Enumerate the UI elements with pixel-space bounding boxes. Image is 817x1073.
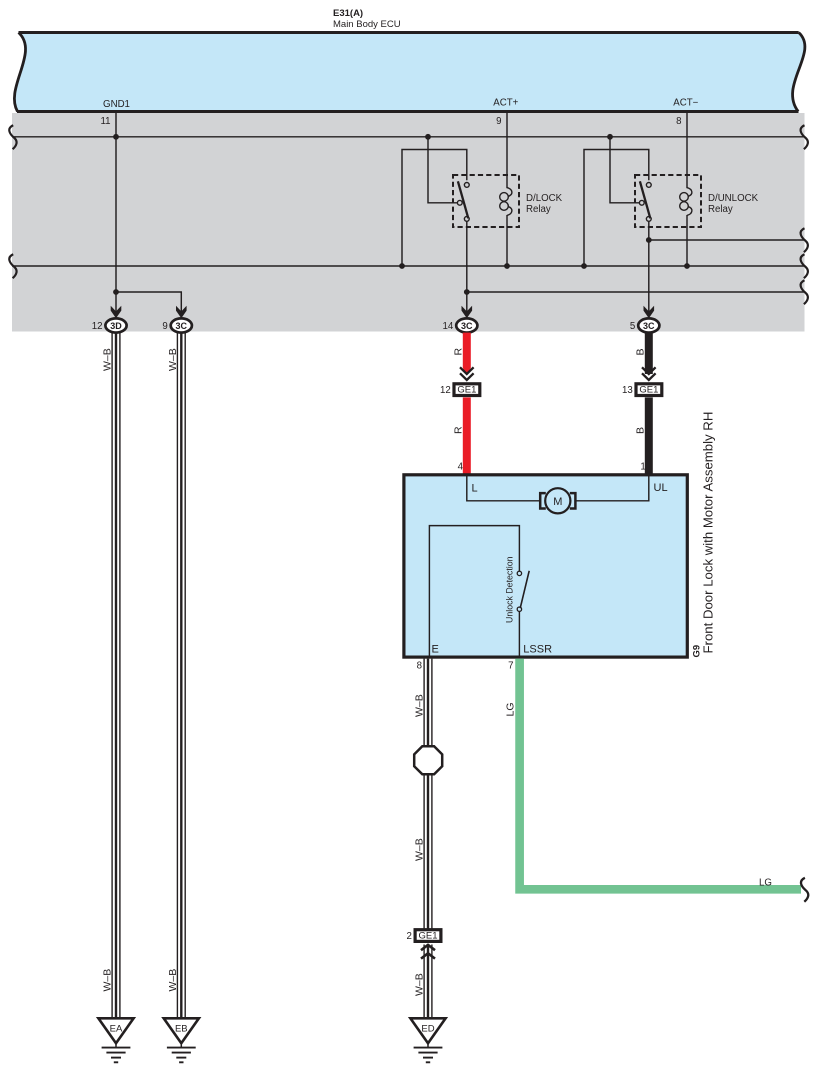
ground EA [98,1018,133,1062]
junction bus2 / D-UNLOCK out [646,237,652,243]
svg-text:M: M [553,496,562,508]
wire unlock detection (internal) [429,526,519,656]
wire relay U-link D/UNLOCK [584,150,649,267]
svg-text:ACT−: ACT− [673,98,698,109]
wire: horizontal bus line 3 (relay common) [12,265,804,267]
svg-text:LSSR: LSSR [523,643,552,655]
arrow out of GE1 pin 2 (double chevron up) [421,945,435,959]
svg-text:W–B: W–B [102,969,114,992]
relay coil D/UNLOCK [680,188,692,266]
wire B (black) from GE1 to G9 pin 1 [645,397,653,473]
relay switch D/UNLOCK [639,181,651,221]
torn wire mark (LG wire end) [801,878,808,902]
svg-text:E: E [432,643,439,655]
relay coil D/LOCK [500,188,512,266]
wire B (black) from connector 3C pin 5 to GE1 pin 13 [645,333,653,374]
arrow into GE1 pin 13 (double chevron) [642,367,656,380]
svg-text:LG: LG [505,702,517,716]
junction GND1 branch [113,289,119,295]
connector 3C pin 9 [162,318,191,332]
wire LG (light green) from G9 pin 7 [520,659,801,890]
component G9 Front Door Lock with Motor Assembly RH (blue box) [404,475,687,657]
svg-text:Unlock Detection: Unlock Detection [505,556,515,623]
svg-text:LG: LG [759,877,772,888]
svg-text:EB: EB [175,1024,188,1035]
svg-text:Relay: Relay [526,204,551,215]
unlock detection switch [517,571,529,612]
svg-text:11: 11 [100,116,110,127]
arrow into connector 3C pin 9 [176,306,187,318]
svg-text:D/UNLOCK: D/UNLOCK [708,193,759,204]
wire W-B from connector 3D pin 12 to ground EA [112,333,120,1019]
svg-text:ACT+: ACT+ [493,98,518,109]
svg-text:Relay: Relay [708,204,733,215]
arrow into GE1 pin 12 (double chevron) [460,367,474,380]
svg-text:EA: EA [110,1024,123,1035]
wire relay feed D/LOCK (from bus 1) [428,137,457,203]
svg-text:GND1: GND1 [103,99,130,110]
svg-text:3D: 3D [110,321,122,331]
wire relay U-link D/LOCK [402,150,467,267]
wire: horizontal bus line 4 (D/LOCK output to other doors) [467,291,804,293]
torn edge mark left, line 3 [9,254,16,278]
svg-text:14: 14 [443,321,454,332]
wire W-B from connector 3C pin 9 to ground EB [177,333,185,1019]
torn edge mark right, line 1 [801,125,808,149]
junction bus1 / D-UNLOCK feed [607,134,613,140]
wire W-B from octagon to GE1 pin 2 [424,774,432,930]
svg-text:D/LOCK: D/LOCK [526,193,563,204]
relay switch D/LOCK [457,181,469,221]
svg-text:W–B: W–B [167,969,179,992]
arrow into connector 3D pin 12 [111,306,122,318]
junction bus3 / D-LOCK coil [504,263,510,269]
body wiring shield (gray band) [12,113,805,332]
torn edge mark right, line 4 [801,280,808,304]
svg-text:2: 2 [407,931,412,942]
svg-text:R: R [452,348,464,356]
svg-text:E31(A): E31(A) [333,8,363,19]
svg-text:L: L [472,483,478,495]
svg-text:GE1: GE1 [639,385,658,396]
svg-text:13: 13 [622,385,633,396]
wire: horizontal bus line 1 [12,136,804,138]
wire D/LOCK switch output down [466,221,468,311]
svg-text:9: 9 [162,321,167,332]
ground ED [410,1018,445,1062]
connector 3C pin 14 [443,318,478,332]
arrow into connector 3C pin 5 [644,306,655,318]
svg-text:W–B: W–B [414,838,426,861]
ground EB [164,1018,199,1062]
octagon junction [414,746,442,774]
svg-text:W–B: W–B [102,348,114,371]
svg-text:Front Door Lock with Motor Ass: Front Door Lock with Motor Assembly RH [701,412,716,654]
connector 3C pin 5 [630,318,659,332]
wire W-B from G9 pin 8 to octagon [424,659,432,747]
junction bus3 / D-UNLOCK coil [684,263,690,269]
wire ACT+ pin 9 down to coil [506,112,508,188]
wire motor loop (internal) [467,476,649,501]
svg-text:Main Body ECU: Main Body ECU [333,19,401,30]
junction GND1 / bus1 [113,134,119,140]
svg-text:W–B: W–B [167,348,179,371]
svg-text:GE1: GE1 [457,385,476,396]
svg-text:8: 8 [417,661,422,672]
svg-text:R: R [452,426,464,434]
svg-text:8: 8 [676,116,681,127]
junction bus1 / D-LOCK feed [425,134,431,140]
motor M [540,488,575,513]
svg-text:3C: 3C [461,321,473,331]
wire W-B from GE1 pin 2 to ground ED [424,945,432,1019]
relay label D/LOCK [526,193,563,215]
relay label D/UNLOCK [708,193,759,215]
wire branch to connector 3C pin 9 [116,292,181,312]
relay box D/LOCK (dashed) [453,175,519,227]
svg-text:12: 12 [440,385,451,396]
connector 3D pin 12 [92,318,127,332]
svg-text:12: 12 [92,321,103,332]
wire: horizontal bus line 2 (to other doors, D/UNLOCK output) [649,239,804,241]
wire R (red) from GE1 to G9 pin 4 [463,397,471,473]
connector GE1 pin 12 [440,384,480,396]
wire GND1 pin 11 down [115,112,117,312]
svg-text:4: 4 [458,461,464,472]
junction bus4 / D-LOCK out [464,289,470,295]
svg-text:1: 1 [640,461,645,472]
junction bus3 / D-UNLOCK U [581,263,587,269]
ECU E31(A) block (blue band with torn ends) [14,33,805,112]
wire ACT- pin 8 down to coil [686,112,688,188]
svg-text:3C: 3C [176,321,188,331]
svg-text:3C: 3C [643,321,655,331]
svg-text:W–B: W–B [414,694,426,717]
svg-text:9: 9 [496,116,501,127]
svg-text:7: 7 [508,661,513,672]
wire D/UNLOCK switch output down [648,221,650,311]
connector GE1 pin 13 [622,384,662,396]
svg-text:5: 5 [630,321,635,332]
svg-text:W–B: W–B [414,973,426,996]
torn edge mark right, line 2 [801,228,808,252]
torn edge mark left, line 1 [9,125,16,149]
svg-text:UL: UL [654,482,668,494]
connector GE1 pin 2 [407,930,441,942]
junction bus3 / D-LOCK U [399,263,405,269]
relay box D/UNLOCK (dashed) [635,175,701,227]
torn edge mark right, line 3 [801,254,808,278]
svg-text:GE1: GE1 [418,931,437,942]
svg-text:ED: ED [421,1024,434,1035]
wire R (red) from connector 3C pin 14 to GE1 pin 12 [463,333,471,376]
ECU title E31(A) Main Body ECU [333,8,401,30]
svg-text:B: B [634,427,646,434]
arrow into connector 3C pin 14 [462,306,473,318]
svg-text:B: B [634,348,646,355]
wire relay feed D/UNLOCK (from bus 1) [610,137,639,203]
